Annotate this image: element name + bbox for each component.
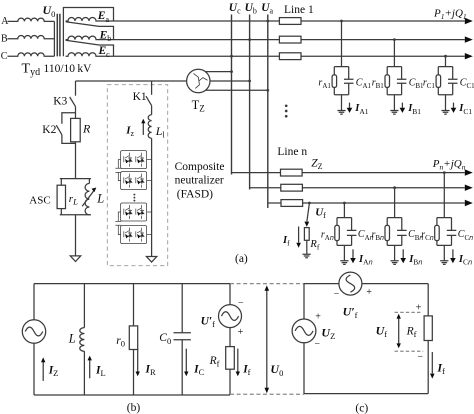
- svg-text:IA𝑛: IA𝑛: [358, 254, 374, 267]
- svg-text:rL: rL: [69, 193, 78, 207]
- ground (load Cn earth): [440, 261, 448, 265]
- svg-text:rB1: rB1: [372, 77, 385, 90]
- ground (fault earth): [303, 254, 311, 258]
- capacitor C0 branch wires: [181, 284, 183, 395]
- svg-text:Iz: Iz: [125, 125, 134, 139]
- svg-text:Eb: Eb: [99, 29, 112, 43]
- svg-text:UZ: UZ: [321, 326, 335, 342]
- svg-text:TZ: TZ: [192, 98, 205, 114]
- svg-text:K3: K3: [53, 96, 67, 108]
- junction TZ line / bus Uc: [230, 70, 233, 73]
- wire R to ASC: [75, 142, 77, 179]
- wire module 1 lower right connector: [147, 180, 152, 182]
- junction TZ line / bus Ub: [248, 80, 251, 83]
- source Uf' (b): [219, 305, 242, 328]
- svg-text:+: +: [366, 287, 372, 298]
- arrow line 1 phase c output: [465, 53, 473, 59]
- arrow Line n phase a output: [465, 200, 473, 206]
- wire module 1 upper right connector: [147, 159, 152, 161]
- wire dashed rail bottom (b)-(c): [230, 393, 304, 395]
- resistor r0 branch wires: [133, 284, 135, 395]
- wire delta link a-b: [66, 22, 114, 40]
- load Bn RC group: [385, 218, 407, 246]
- arrow Line n phase c output: [465, 169, 473, 175]
- svg-text:neutralizer: neutralizer: [175, 175, 224, 187]
- svg-text:IC𝑛: IC𝑛: [458, 254, 473, 267]
- svg-text:Uf: Uf: [315, 207, 326, 221]
- current arrow IR: [136, 349, 140, 377]
- inductor L branch wires: [83, 284, 85, 395]
- line impedance box Line n phase c: [281, 169, 303, 176]
- wire (b) top rail: [34, 283, 230, 285]
- junction phase a / bus Ua: [266, 20, 269, 23]
- svg-text:Ll: Ll: [155, 124, 166, 140]
- transformer Tyd secondary winding Eb: [66, 36, 114, 39]
- junction TZ line / bus Ua: [266, 89, 269, 92]
- wire Line n phase c: [232, 172, 465, 174]
- wire ASC to ground: [75, 215, 77, 256]
- bus Ua: [267, 15, 269, 209]
- transformer Tyd primary winding C: [8, 53, 55, 56]
- wire fault (slanted) with arrow: [304, 203, 309, 227]
- switch K2: [56, 125, 62, 135]
- current arrow IBn: [400, 249, 406, 263]
- switch K1: [146, 96, 152, 105]
- wire load C1 to ground: [445, 95, 447, 111]
- wire Line n phase b: [250, 187, 465, 189]
- wire K2 branch top: [62, 113, 76, 124]
- svg-text:r0: r0: [116, 335, 125, 349]
- wire K3 to R/K2: [75, 107, 77, 119]
- svg-text:Rf: Rf: [309, 239, 319, 252]
- line impedance box Line n phase a: [281, 200, 303, 207]
- transformer Tyd primary winding A: [8, 18, 55, 21]
- svg-text:+: +: [416, 302, 422, 313]
- junction phase c / bus Uc: [230, 55, 233, 58]
- load An RC group: [335, 218, 357, 246]
- load Cn RC group: [435, 218, 457, 246]
- wire load C1 tap: [445, 56, 447, 66]
- source Uf' (c): [339, 272, 362, 295]
- svg-text:If: If: [282, 235, 290, 248]
- current arrow ICn: [450, 249, 456, 263]
- svg-text:−: −: [417, 351, 423, 362]
- svg-text:Ua: Ua: [261, 2, 273, 16]
- svg-text:CC1: CC1: [460, 78, 474, 91]
- FASD converter bridge module 2 lower: [121, 226, 147, 244]
- svg-text:+: +: [315, 312, 321, 323]
- svg-text:Rf: Rf: [209, 355, 220, 369]
- svg-text:IB1: IB1: [407, 103, 421, 116]
- resistor r0: [129, 326, 137, 350]
- svg-text:B: B: [1, 34, 8, 45]
- svg-text:rB𝑛: rB𝑛: [371, 230, 384, 243]
- wire (c) left rail: [303, 284, 305, 394]
- transformer Tyd core: [57, 14, 60, 57]
- capacitor C0: [174, 333, 191, 340]
- arrow Line n phase b output: [465, 185, 473, 191]
- label Composite neutralizer (FASD): [175, 161, 225, 200]
- svg-text:−: −: [334, 289, 340, 300]
- wire neutral rail (TZ neutral to K3/K1 branches): [76, 80, 187, 82]
- svg-text:If: If: [242, 364, 250, 378]
- line impedance box Line1 phase b: [279, 36, 301, 43]
- ground (load Bn earth): [391, 261, 399, 265]
- svg-text:Pn+jQn: Pn+jQn: [432, 158, 466, 172]
- current arrow If (c): [430, 352, 435, 379]
- ground (load C1 earth): [441, 111, 449, 115]
- junction load B1 tap: [393, 38, 396, 41]
- load A1 RC group: [332, 67, 353, 95]
- svg-text:R: R: [82, 122, 91, 136]
- line impedance box Line1 phase a: [279, 18, 301, 25]
- transformer Tyd primary winding B: [8, 36, 55, 39]
- wire ASC bottom: [60, 214, 91, 216]
- junction phase b / bus Ub: [248, 38, 251, 41]
- wire phase c line: [114, 55, 465, 57]
- resistor Rf (b): [226, 347, 235, 370]
- wire load Bn tap: [393, 186, 396, 217]
- inductor L1: [148, 115, 151, 139]
- inductor L (arc suppression coil, adjustable): [82, 179, 96, 215]
- wire delta link b-c: [66, 40, 114, 56]
- svg-text:+: +: [238, 327, 244, 338]
- svg-text:ASC: ASC: [29, 195, 50, 207]
- svg-text:(FASD): (FASD): [177, 188, 213, 200]
- svg-text:U′f: U′f: [343, 304, 358, 320]
- svg-text:Line 1: Line 1: [284, 4, 314, 16]
- wire module 2 lower right connector: [147, 234, 152, 236]
- wire TZ to bus Uc: [205, 71, 231, 73]
- source UZ branch wires: [33, 284, 35, 395]
- svg-text:CB1: CB1: [409, 78, 424, 91]
- ground (ASC earth, open triangle): [70, 256, 80, 262]
- svg-text:CA1: CA1: [356, 78, 372, 91]
- svg-text:Line n: Line n: [277, 146, 307, 158]
- ground (FASD earth, open triangle): [146, 257, 156, 263]
- transformer Tyd secondary winding Ea: [66, 18, 114, 21]
- current arrow IC1: [451, 103, 457, 113]
- arrow line 1 phase a output: [465, 18, 473, 24]
- svg-text:IB𝑛: IB𝑛: [408, 254, 423, 267]
- wire load Cn to ground: [443, 245, 445, 260]
- line impedance box Line1 phase c: [279, 53, 301, 60]
- ground (load A1 earth): [337, 111, 345, 115]
- svg-text:Ea: Ea: [97, 10, 110, 24]
- wire K1 to L1: [151, 106, 153, 115]
- svg-text:C: C: [1, 51, 8, 62]
- ground (load An earth): [340, 261, 348, 265]
- wire load B1 tap: [393, 40, 395, 67]
- svg-text:rC𝑛: rC𝑛: [421, 230, 434, 243]
- svg-text:P1+jQ1: P1+jQ1: [433, 8, 467, 22]
- resistor R: [71, 118, 81, 141]
- svg-text:U0: U0: [270, 362, 283, 378]
- wire primary star point (neutral U0): [53, 21, 55, 56]
- wire load Bn to ground: [394, 245, 396, 260]
- measure arrow Uf (c): [397, 314, 401, 348]
- svg-text:IC: IC: [193, 364, 204, 378]
- inductor L (b): [80, 328, 85, 352]
- wire Line n phase a: [268, 202, 465, 204]
- svg-text:K2: K2: [42, 124, 56, 136]
- ellipsis (more modules): [133, 194, 135, 202]
- line impedance box Line n phase b: [281, 184, 303, 191]
- current arrow Iz: [141, 119, 145, 135]
- svg-text:CC𝑛: CC𝑛: [458, 229, 473, 242]
- wire neutral down to K1: [151, 81, 153, 95]
- wire load Cn tap: [443, 171, 446, 217]
- source (b) zero-seq source circle: [22, 320, 45, 343]
- wire K2 branch bottom: [62, 135, 76, 144]
- FASD converter bridge module 2 upper: [121, 203, 147, 221]
- svg-text:L: L: [68, 332, 76, 346]
- wire dashed rail top (b)-(c): [230, 283, 304, 285]
- wire ASC rL branch top: [60, 179, 62, 186]
- svg-text:Uf: Uf: [376, 324, 388, 340]
- svg-text:K1: K1: [133, 91, 147, 103]
- svg-text:U0: U0: [43, 3, 56, 19]
- transformer Tyd secondary winding Ec: [66, 53, 114, 56]
- wire load A1 to ground: [341, 95, 343, 111]
- svg-text:Composite: Composite: [175, 161, 225, 173]
- wire load An to ground: [343, 245, 345, 260]
- svg-text:L: L: [96, 191, 104, 205]
- wire (c) loop top rail: [304, 283, 428, 285]
- switch K3: [70, 97, 76, 107]
- svg-text:IR: IR: [145, 364, 156, 378]
- FASD converter bridge module 1 upper: [121, 151, 147, 169]
- junction fault tap on Line n phase a: [308, 202, 311, 205]
- bus Uc: [231, 15, 233, 175]
- dashed tick Uf top: [395, 311, 422, 313]
- wire ASC top: [60, 178, 91, 180]
- current arrow If (fault current): [296, 227, 301, 248]
- wire phase b line: [114, 39, 465, 41]
- bus Ub: [249, 15, 251, 190]
- svg-text:110/10 kV: 110/10 kV: [44, 63, 93, 75]
- svg-text:IC1: IC1: [458, 103, 472, 116]
- svg-text:(c): (c): [355, 402, 368, 414]
- FASD converter bridge module 1 lower: [121, 172, 147, 190]
- resistor Rf (c): [424, 316, 432, 341]
- resistor Rf (fault resistance): [304, 228, 309, 241]
- wire Rf to ground: [306, 240, 308, 254]
- current arrow IAn: [350, 249, 356, 263]
- dashed tick Uf bottom: [395, 350, 424, 352]
- resistor rL: [57, 185, 65, 208]
- FASD dashed enclosure: [107, 85, 167, 266]
- transformer TZ (grounding transformer): [187, 69, 210, 92]
- measure arrow U0 (zero-sequence voltage): [265, 285, 270, 393]
- svg-text:Ub: Ub: [245, 2, 257, 16]
- svg-text:IZ: IZ: [48, 365, 59, 379]
- capacitor (module pair 2 DC link): [115, 212, 121, 235]
- svg-text:rA𝑛: rA𝑛: [321, 230, 334, 243]
- current arrow IC: [184, 349, 188, 377]
- wire ASC rL branch bottom: [60, 209, 62, 215]
- wire secondary delta left side and top: [63, 8, 113, 57]
- wire (c) right rail: [427, 284, 429, 394]
- svg-text:rA1: rA1: [318, 77, 331, 90]
- svg-text:(b): (b): [127, 402, 141, 414]
- current arrow If (b): [236, 349, 240, 377]
- wire load An tap: [343, 202, 346, 218]
- svg-text:Ec: Ec: [98, 45, 111, 59]
- arrow line 1 phase b output: [465, 36, 473, 42]
- junction load A1 tap: [340, 20, 343, 23]
- wire load A1 tap: [341, 21, 343, 67]
- junction load C1 tap: [444, 55, 447, 58]
- current arrow IZ: [41, 357, 45, 381]
- svg-text:Rf: Rf: [406, 326, 417, 340]
- svg-text:Uc: Uc: [229, 2, 241, 16]
- wire load B1 to ground: [393, 95, 395, 111]
- svg-text:IA1: IA1: [354, 103, 369, 116]
- svg-text:U′f: U′f: [201, 316, 216, 330]
- capacitor (module pair 1 DC link): [115, 160, 121, 181]
- current arrow IL: [88, 356, 92, 379]
- wire (b) bottom rail: [34, 394, 230, 396]
- ellipsis (more feeders): [285, 104, 288, 117]
- source UZ (c): [292, 319, 316, 343]
- svg-text:rC1: rC1: [423, 77, 436, 90]
- load B1 RC group: [385, 67, 406, 95]
- svg-text:C0: C0: [159, 332, 171, 346]
- wire (c) bottom rail: [304, 393, 428, 395]
- wire TZ to bus Ub: [210, 80, 250, 82]
- svg-text:−: −: [314, 339, 320, 350]
- load C1 RC group: [436, 67, 457, 95]
- source Uf' branch wires (b right rail): [229, 284, 231, 395]
- svg-text:ZZ: ZZ: [311, 158, 322, 172]
- ground (load B1 earth): [390, 111, 398, 115]
- svg-text:−: −: [238, 298, 244, 309]
- svg-text:If: If: [436, 361, 445, 377]
- svg-text:IL: IL: [95, 365, 106, 379]
- wire TZ to bus Ua: [205, 89, 267, 91]
- current arrow IA1: [347, 103, 353, 113]
- wire module 2 upper right connector: [147, 211, 152, 213]
- current arrow IB1: [400, 103, 406, 113]
- wire L1 to converter chain: [151, 138, 153, 256]
- wire phase a line (transformer to Line 1 load, P1 feeder): [114, 20, 465, 22]
- svg-text:Tyd: Tyd: [22, 62, 41, 79]
- wire neutral down to K3: [75, 81, 77, 96]
- svg-text:(a): (a): [235, 253, 248, 265]
